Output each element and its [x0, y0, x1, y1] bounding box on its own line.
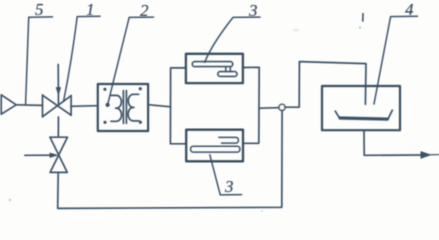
svg-text:3: 3 — [248, 1, 258, 20]
svg-text:3: 3 — [224, 177, 234, 196]
svg-text:5: 5 — [35, 0, 44, 19]
svg-text:4: 4 — [405, 0, 414, 19]
svg-text:2: 2 — [140, 1, 149, 20]
svg-text:1: 1 — [86, 0, 95, 19]
